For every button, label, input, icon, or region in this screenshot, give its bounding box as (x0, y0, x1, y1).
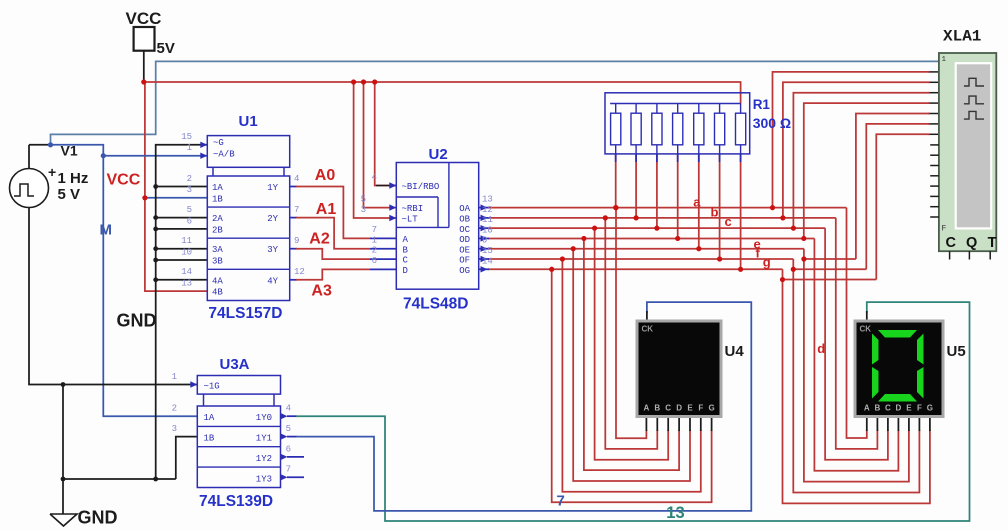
svg-text:M: M (100, 222, 113, 239)
wire ground horizontal run (63, 478, 176, 480)
svg-text:E: E (687, 404, 693, 413)
wire U1 4A from bus (156, 279, 208, 281)
wire XLA1 feed b (783, 82, 930, 218)
svg-text:F: F (942, 225, 947, 234)
wire U3A 1Y1 blue route to U4 CK (296, 302, 751, 511)
wire V1 minus to U3A ~1G (29, 208, 197, 385)
svg-text:12: 12 (294, 267, 305, 277)
svg-text:OA: OA (459, 204, 470, 214)
svg-text:2A: 2A (212, 214, 223, 224)
svg-text:A: A (644, 404, 650, 413)
svg-text:1: 1 (172, 372, 177, 382)
wire segment net e jog and tail to XLA column (804, 249, 856, 259)
wire U1 3B from bus (156, 259, 208, 261)
svg-text:14: 14 (181, 267, 192, 277)
wire to U1 pin 1 ~A/B (103, 155, 207, 157)
svg-text:G: G (708, 404, 714, 413)
svg-text:74LS157D: 74LS157D (208, 305, 282, 322)
wire V1 plus terminal (28, 145, 30, 169)
wire U3A 1Y2 stub (287, 456, 304, 458)
wire U2 ~BI/RBO from VCC rail (375, 82, 397, 186)
svg-text:3B: 3B (212, 257, 223, 267)
wire U3A 1Y3 stub (287, 476, 304, 478)
svg-text:6: 6 (372, 256, 377, 266)
wire U5 segment E nest (804, 259, 909, 482)
svg-text:A: A (403, 235, 409, 245)
svg-text:V1: V1 (61, 143, 78, 159)
svg-text:15: 15 (482, 246, 493, 256)
wire net A0 from U1 1Y to U2 A (296, 187, 370, 239)
wire XLA1 feed g (876, 134, 929, 279)
wire U1 1B from VCC node (145, 197, 207, 199)
wire U2 ~RBI from VCC rail (364, 82, 397, 208)
svg-text:1B: 1B (212, 194, 223, 204)
resistor R1 element 2 (631, 113, 641, 145)
svg-text:74LS48D: 74LS48D (403, 296, 468, 313)
wire XLA1 feed c (793, 93, 929, 228)
svg-text:C: C (665, 404, 671, 413)
svg-text:Q: Q (966, 235, 977, 251)
resistor R1 element 4 (673, 113, 683, 145)
svg-text:5V: 5V (157, 40, 175, 57)
svg-text:GND: GND (117, 311, 157, 331)
svg-text:11: 11 (181, 236, 192, 246)
wire R1 column b to net b (635, 154, 637, 218)
wire XLA1 feed a (773, 72, 930, 208)
svg-text:B: B (654, 404, 660, 413)
wire net A3 from U1 4Y to U2 D (296, 269, 370, 279)
svg-text:XLA1: XLA1 (943, 28, 981, 46)
junction dots segment rows (613, 205, 618, 210)
svg-text:A2: A2 (309, 230, 330, 247)
svg-text:2Y: 2Y (267, 214, 278, 224)
XLA1 feed pin stubs (928, 71, 939, 73)
wire segment net f horizontal from U2 OF (488, 258, 793, 260)
wire U2 OC output stub pin (479, 227, 489, 229)
svg-text:~G: ~G (213, 138, 224, 148)
power VCC symbol (134, 27, 155, 51)
svg-text:2B: 2B (212, 225, 223, 235)
svg-text:C: C (403, 256, 409, 266)
wire segment net c horizontal from U2 OC (488, 227, 825, 229)
wire segment net f jog and tail to XLA column (793, 259, 866, 269)
wire segment net e horizontal from U2 OE (488, 248, 804, 250)
svg-text:5 V: 5 V (58, 186, 81, 203)
svg-text:3A: 3A (212, 245, 223, 255)
source V1 (10, 169, 49, 208)
wire net M vertical to U3A 1A (103, 156, 197, 417)
svg-text:~RBI: ~RBI (402, 204, 424, 214)
svg-text:D: D (676, 404, 682, 413)
wire U3A 1Y0 teal route to U5 CK (296, 302, 970, 521)
svg-text:2: 2 (172, 404, 177, 414)
svg-text:A0: A0 (315, 167, 336, 184)
svg-text:7: 7 (372, 225, 377, 235)
wire U4 segment E nest (573, 249, 690, 481)
svg-text:d: d (817, 341, 825, 356)
svg-text:A3: A3 (311, 282, 332, 299)
wire U1 3A from bus (156, 248, 208, 250)
svg-text:4: 4 (372, 173, 377, 183)
svg-text:D: D (896, 404, 902, 413)
wire U4 segment D nest (584, 238, 679, 470)
wire U2 input stub B (370, 248, 396, 250)
svg-text:OC: OC (459, 225, 470, 235)
svg-text:3Y: 3Y (267, 245, 278, 255)
wire R1 column c to net c (656, 154, 658, 228)
svg-text:9: 9 (482, 236, 487, 246)
svg-text:2: 2 (187, 174, 192, 184)
wire XLA1 feed d (804, 103, 930, 238)
svg-text:7: 7 (286, 465, 291, 475)
wire R1 column g to net g (740, 154, 742, 269)
wire U5 segment F nest (793, 269, 919, 492)
svg-text:U1: U1 (239, 113, 258, 130)
svg-text:15: 15 (181, 132, 192, 142)
svg-text:5: 5 (286, 424, 291, 434)
wire U5 segment C nest (825, 228, 888, 460)
svg-text:OE: OE (459, 245, 470, 255)
svg-text:B: B (403, 245, 409, 255)
svg-text:74LS139D: 74LS139D (199, 493, 273, 510)
resistor R1 element 5 (694, 113, 704, 145)
resistor R1 element 3 (652, 113, 662, 145)
wire XLA1 feed e (856, 114, 930, 260)
wire R1 column d to net d (677, 154, 679, 239)
svg-text:OD: OD (459, 235, 470, 245)
wire U1 output stubs blue (290, 186, 297, 188)
wire V1 top to select jog (29, 144, 51, 146)
svg-text:13: 13 (181, 279, 192, 289)
svg-text:1Y: 1Y (267, 183, 278, 193)
svg-text:C: C (885, 404, 891, 413)
wire U5 segment G nest (783, 280, 930, 504)
decoder U2 74LS48D (396, 163, 478, 290)
resistor pack R1 (605, 93, 750, 154)
svg-text:4B: 4B (212, 288, 223, 298)
wire U5 segment A nest (847, 208, 867, 438)
svg-text:1: 1 (942, 56, 947, 64)
wire U2 OG output stub pin (479, 268, 489, 270)
svg-text:CK: CK (860, 325, 872, 334)
svg-text:GND: GND (78, 508, 118, 528)
wire red VCC drop to U1 1B and 4B (145, 82, 207, 291)
svg-text:R1: R1 (753, 97, 771, 112)
wire U2 input stub D (370, 268, 396, 270)
svg-text:6: 6 (286, 444, 291, 454)
svg-text:B: B (875, 404, 881, 413)
wire blue top rail to XLA1 pin 1 (51, 61, 939, 144)
decoder U3A 74LS139D (197, 376, 280, 395)
wire U2 OD output stub pin (479, 237, 489, 239)
svg-text:g: g (763, 254, 771, 269)
junction dots blue near V1 (48, 142, 53, 147)
svg-text:4Y: 4Y (267, 276, 278, 286)
svg-text:13: 13 (666, 504, 684, 522)
svg-text:c: c (725, 214, 732, 229)
resistor R1 element 7 (736, 113, 746, 145)
wire U1 pin 15 ~G to ground bus (156, 145, 208, 479)
wire U4 segment C nest (595, 228, 669, 460)
svg-text:~A/B: ~A/B (213, 150, 235, 160)
wire U1 2A from bus (156, 217, 208, 219)
svg-text:3: 3 (172, 424, 177, 434)
svg-text:G: G (927, 404, 933, 413)
svg-text:5: 5 (187, 205, 192, 215)
svg-text:4A: 4A (212, 276, 223, 286)
wire U4 segment A nest (616, 208, 646, 439)
wire U2 input stub C (370, 258, 396, 260)
svg-text:3: 3 (187, 185, 192, 195)
svg-text:U2: U2 (429, 146, 448, 163)
wire U4 segment F nest (562, 259, 700, 492)
svg-text:1Y2: 1Y2 (256, 454, 272, 464)
wire U2 input stub A (370, 237, 396, 239)
junction dots U1 ground bus (153, 184, 158, 189)
svg-text:7: 7 (294, 205, 299, 215)
svg-text:10: 10 (181, 247, 192, 257)
svg-text:VCC: VCC (107, 171, 141, 188)
wire U3A output stubs blue (287, 415, 297, 417)
wire red VCC rail (144, 82, 741, 104)
svg-text:A1: A1 (316, 201, 337, 218)
svg-text:b: b (711, 204, 719, 219)
svg-text:5: 5 (361, 195, 366, 205)
svg-text:9: 9 (294, 236, 299, 246)
svg-text:1: 1 (187, 143, 192, 153)
wire U2 OB output stub pin (479, 217, 489, 219)
wire VCC symbol stub (143, 51, 145, 82)
wire U2 ~BI/RBO stub (376, 185, 396, 187)
wire U5 segment B nest (836, 218, 878, 449)
svg-text:OB: OB (459, 215, 470, 225)
svg-text:1Y1: 1Y1 (256, 434, 272, 444)
wire U2 OF output stub pin (479, 258, 489, 260)
svg-text:1Y3: 1Y3 (256, 474, 272, 484)
svg-text:4: 4 (286, 404, 291, 414)
junction dots VCC rail (141, 79, 146, 84)
pin arrows U3A outputs (281, 413, 288, 419)
wire U4 segment G nest (552, 269, 712, 502)
wire U2 ~LT from VCC rail (354, 82, 397, 218)
svg-text:~LT: ~LT (402, 215, 419, 225)
svg-text:T: T (988, 235, 997, 251)
wire XLA1 feed f (866, 124, 929, 269)
svg-text:4: 4 (294, 174, 299, 184)
wire net A2 from U1 3Y to U2 C (296, 249, 370, 259)
svg-text:D: D (403, 266, 408, 276)
svg-text:OG: OG (459, 266, 470, 276)
pin arrow U2 ~LT (389, 215, 396, 221)
wire R1 column a to net a (615, 154, 617, 208)
svg-text:C: C (946, 235, 957, 251)
XLA1 waveform glyphs (964, 78, 984, 86)
svg-text:1A: 1A (212, 183, 223, 193)
wire U2 OE output stub pin (479, 248, 489, 250)
resistor R1 element 6 (715, 113, 725, 145)
svg-text:10: 10 (482, 225, 493, 235)
svg-text:6: 6 (187, 216, 192, 226)
svg-text:7: 7 (557, 493, 565, 510)
svg-text:~BI/RBO: ~BI/RBO (402, 182, 440, 192)
wire R1 column e to net e (698, 154, 700, 249)
svg-text:1: 1 (372, 235, 377, 245)
display U5 seven-segment showing 0 (855, 321, 943, 417)
logic analyzer XLA1 (939, 53, 996, 251)
svg-text:U4: U4 (725, 343, 745, 360)
svg-text:a: a (693, 194, 701, 209)
svg-text:2: 2 (372, 246, 377, 256)
svg-text:CK: CK (642, 325, 654, 334)
junction dot VCC at U1 1B (142, 195, 147, 200)
wire segment net g horizontal from U2 OG (488, 268, 783, 270)
XLA1 left pin stubs (930, 144, 939, 146)
wire net A1 from U1 2Y to U2 B (296, 218, 370, 249)
svg-text:+: + (48, 164, 56, 180)
svg-text:1B: 1B (204, 434, 215, 444)
wire segment net d horizontal from U2 OD (488, 237, 814, 239)
wire U2 OA output stub pin (479, 207, 489, 209)
wire ground drop from V1 branch (62, 385, 64, 515)
svg-text:F: F (917, 404, 922, 413)
svg-text:13: 13 (482, 195, 493, 205)
wire U4 segment B nest (605, 218, 657, 449)
svg-text:3: 3 (361, 205, 366, 215)
svg-text:300 Ω: 300 Ω (753, 115, 791, 131)
pin arrow U2 ~RBI (389, 204, 396, 210)
svg-text:VCC: VCC (126, 9, 162, 28)
svg-text:U5: U5 (947, 343, 966, 360)
svg-text:12: 12 (482, 205, 493, 215)
svg-text:A: A (864, 404, 870, 413)
wire ground up to U3A 1B (176, 437, 198, 479)
wire segment net a horizontal from U2 OA (488, 207, 847, 209)
wire U5 segment D nest (814, 238, 898, 470)
svg-text:OF: OF (459, 256, 470, 266)
svg-text:1 Hz: 1 Hz (58, 170, 89, 187)
svg-text:14: 14 (482, 256, 493, 266)
XLA1 bottom pins (949, 251, 951, 259)
svg-text:11: 11 (482, 215, 493, 225)
svg-text:f: f (756, 245, 761, 260)
wire segment net b horizontal from U2 OB (488, 217, 836, 219)
wire segment net g jog and tail to XLA column (783, 269, 877, 279)
wire U1 2B from bus (156, 228, 208, 230)
ground symbol (50, 514, 77, 526)
junction dots ground net (61, 382, 66, 387)
wire R1 column f to net f (719, 154, 721, 259)
svg-text:1A: 1A (204, 413, 215, 423)
svg-text:E: E (906, 404, 912, 413)
svg-text:F: F (698, 404, 703, 413)
resistor R1 element 1 (611, 113, 621, 145)
svg-text:~1G: ~1G (204, 381, 220, 391)
green digit 0 segments (878, 330, 917, 338)
display U4 seven-segment (637, 321, 721, 417)
wire U1 1A from bus (156, 186, 208, 188)
svg-text:1Y0: 1Y0 (256, 413, 272, 423)
svg-text:U3A: U3A (220, 356, 250, 373)
multiplexer U1 74LS157D (207, 136, 289, 168)
